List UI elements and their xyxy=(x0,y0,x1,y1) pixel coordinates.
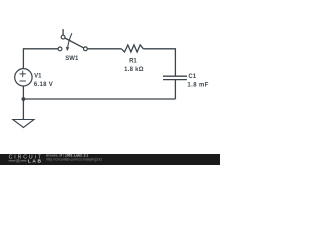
switch SW1 left terminal circle xyxy=(58,47,62,51)
V1 plus sign xyxy=(20,71,26,77)
junction node dot xyxy=(22,97,26,101)
wire switch to resistor xyxy=(87,48,121,50)
svg-text:LAB: LAB xyxy=(28,158,43,164)
switch SW1 right terminal circle xyxy=(84,47,88,51)
wire top-left: switch left terminal to V1 top xyxy=(23,49,58,69)
svg-text:1.8 kΩ: 1.8 kΩ xyxy=(124,67,144,73)
capacitor C1 bottom plate xyxy=(163,79,187,81)
wire capacitor bottom xyxy=(174,80,176,99)
voltage source V1 circle xyxy=(15,69,32,86)
switch SW1 top terminal circle xyxy=(61,35,65,39)
switch SW1 blade xyxy=(65,38,84,48)
V1 minus sign xyxy=(20,80,26,82)
wire bottom horizontal xyxy=(23,98,175,100)
wire resistor to capacitor top xyxy=(143,49,175,76)
svg-text:6.18 V: 6.18 V xyxy=(34,82,53,88)
wire V1 bottom to ground xyxy=(22,86,24,120)
svg-text:http://circuitlab.com/c/cmdayb: http://circuitlab.com/c/cmdaybrg2x2 xyxy=(46,158,102,162)
switch SW1 actuator arrow shaft xyxy=(68,33,72,47)
switch SW1 top stub xyxy=(62,29,64,35)
capacitor C1 top plate xyxy=(163,75,187,77)
svg-text:R1: R1 xyxy=(129,59,137,65)
svg-text:SW1: SW1 xyxy=(65,56,79,62)
switch SW1 actuator arrowhead xyxy=(66,47,69,52)
CircuitLab logo wire dashes xyxy=(9,160,27,162)
svg-text:1.8 mF: 1.8 mF xyxy=(187,82,208,88)
svg-text:C1: C1 xyxy=(188,74,196,80)
resistor R1 zigzag xyxy=(121,45,143,52)
svg-text:V1: V1 xyxy=(34,73,42,79)
watermark strip background xyxy=(0,154,220,165)
ground symbol xyxy=(13,120,34,128)
CircuitLab logo capacitor glyph xyxy=(17,159,19,162)
